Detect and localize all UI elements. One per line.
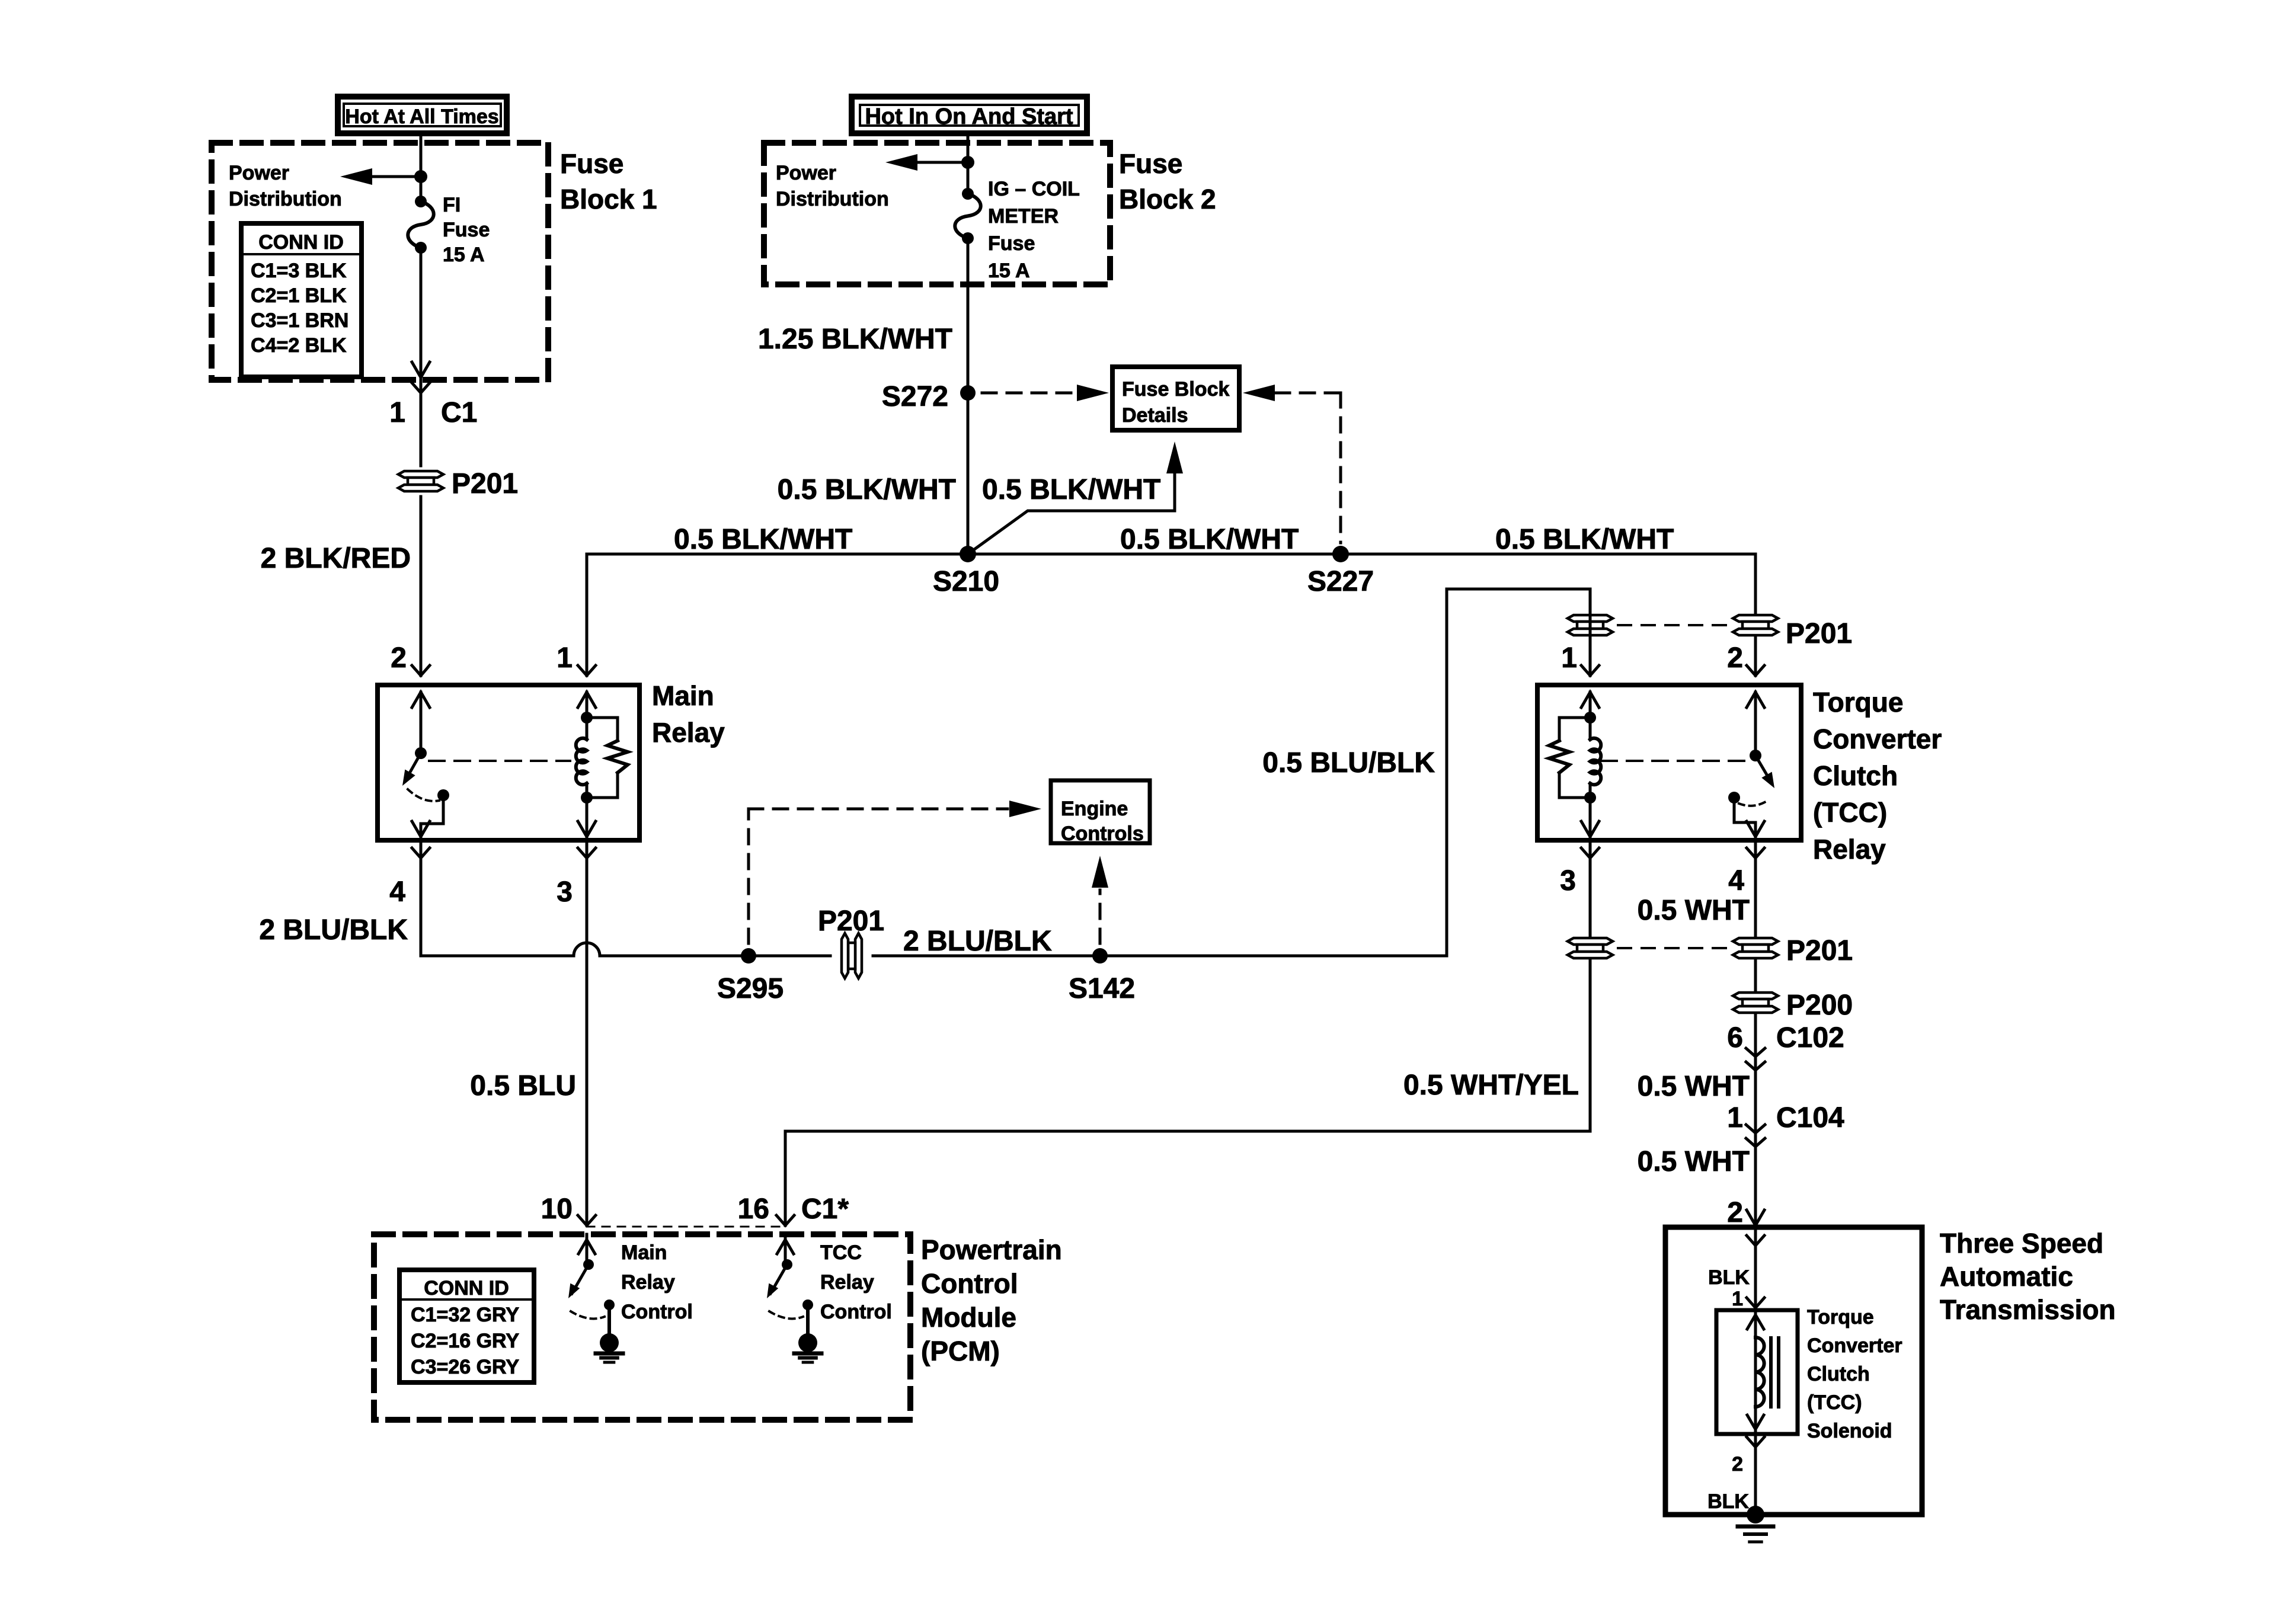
svg-text:10: 10 — [541, 1193, 573, 1225]
svg-text:Fuse: Fuse — [1119, 148, 1182, 179]
dashed link between relay switch and coil — [429, 760, 570, 762]
svg-text:(TCC): (TCC) — [1813, 797, 1887, 828]
svg-text:Control: Control — [621, 1301, 693, 1323]
wire: S142 right and up to TCC relay — [1100, 589, 1590, 956]
svg-text:S272: S272 — [882, 381, 948, 412]
svg-text:S227: S227 — [1307, 566, 1374, 597]
wire: main relay pin 4 down and right — [421, 840, 574, 956]
svg-text:0.5 BLU/BLK: 0.5 BLU/BLK — [1262, 747, 1435, 779]
connector chevron at TCC pin 4 — [1747, 848, 1764, 858]
svg-text:3: 3 — [1560, 865, 1576, 897]
wire: arrow to Power Distribution — [347, 175, 421, 178]
svg-text:1: 1 — [557, 642, 573, 674]
svg-text:P200: P200 — [1786, 990, 1853, 1021]
splice S295 — [741, 948, 756, 964]
svg-text:0.5 WHT: 0.5 WHT — [1638, 895, 1750, 926]
svg-text:METER: METER — [988, 205, 1059, 228]
connector chevron at main relay pin 2 — [412, 665, 430, 676]
wire: TCC pin 4 down to transmission — [1754, 840, 1757, 1225]
wire: main 0.5 BLK/WHT bus — [587, 553, 1755, 556]
svg-text:Module: Module — [921, 1302, 1016, 1333]
svg-text:2: 2 — [1727, 1197, 1743, 1228]
svg-text:CONN ID: CONN ID — [424, 1277, 509, 1299]
dashed wire from S142 to Engine Controls — [1099, 890, 1102, 943]
svg-text:IG – COIL: IG – COIL — [988, 178, 1080, 200]
svg-text:1: 1 — [1727, 1102, 1743, 1134]
svg-text:S142: S142 — [1069, 973, 1135, 1004]
wire: fuse block 2 output down to S272 — [967, 238, 970, 393]
svg-text:6: 6 — [1727, 1022, 1743, 1054]
svg-text:0.5 BLK/WHT: 0.5 BLK/WHT — [1495, 524, 1674, 555]
thin dashed connector line between pins 10 and 16 — [587, 1226, 785, 1228]
svg-text:0.5 BLU: 0.5 BLU — [470, 1070, 576, 1102]
svg-text:S210: S210 — [933, 566, 999, 597]
ground at main relay control — [607, 1305, 611, 1334]
connector chevron above solenoid — [1747, 1298, 1764, 1308]
wire: bus drop to main relay pin 1 — [586, 554, 589, 676]
connector C102 double chevron — [1746, 1048, 1765, 1057]
svg-text:TCC: TCC — [820, 1241, 862, 1264]
TCC relay switch (pins 2-4) — [1747, 692, 1764, 708]
svg-text:2 BLK/RED: 2 BLK/RED — [261, 543, 411, 574]
svg-text:Torque: Torque — [1813, 687, 1903, 718]
svg-text:C3=1 BRN: C3=1 BRN — [251, 309, 348, 332]
svg-text:Block 2: Block 2 — [1119, 184, 1216, 215]
ground at TCC relay control — [806, 1305, 810, 1334]
connector chevron at main relay pin 4 — [412, 848, 430, 858]
arrow: wire exits fuse block 1 — [412, 362, 430, 377]
svg-text:Relay: Relay — [652, 717, 725, 748]
svg-text:0.5 WHT: 0.5 WHT — [1638, 1146, 1750, 1177]
splice S227 — [1332, 546, 1349, 562]
svg-text:2 BLU/BLK: 2 BLU/BLK — [259, 914, 408, 946]
svg-text:P201: P201 — [1786, 618, 1852, 649]
connector chevron inside transmission (top) — [1754, 1227, 1757, 1311]
svg-text:0.5 WHT/YEL: 0.5 WHT/YEL — [1403, 1070, 1579, 1101]
svg-text:Fuse: Fuse — [560, 148, 623, 179]
svg-text:1: 1 — [1561, 642, 1577, 674]
wire: bus corner down to TCC relay pin 2 — [1754, 554, 1757, 676]
TCC relay coil with resistor (pins 1-3) — [1581, 692, 1599, 708]
svg-text:P201: P201 — [452, 468, 518, 500]
svg-text:C102: C102 — [1776, 1022, 1844, 1054]
PCM TCC relay control switch — [784, 1234, 787, 1240]
connector chevron at PCM pin 16 — [776, 1215, 794, 1225]
svg-text:Automatic: Automatic — [1940, 1261, 2073, 1292]
svg-text:Fuse: Fuse — [443, 219, 490, 241]
svg-text:Fuse Block: Fuse Block — [1122, 378, 1229, 401]
svg-text:0.5 BLK/WHT: 0.5 BLK/WHT — [674, 524, 852, 555]
svg-text:15 A: 15 A — [443, 244, 485, 266]
wire: TCC pin 3 left to PCM pin 16 riser — [785, 1130, 1590, 1133]
connector P201 (middle, in-line) — [842, 933, 862, 978]
svg-text:C4=2 BLK: C4=2 BLK — [251, 334, 347, 357]
svg-text:Converter: Converter — [1807, 1334, 1902, 1357]
svg-text:2: 2 — [1732, 1453, 1743, 1475]
svg-text:Relay: Relay — [1813, 834, 1886, 865]
wire: S295 to P201 — [749, 955, 830, 958]
fuse IG-COIL METER 15A — [962, 188, 974, 200]
connector C104 double chevron — [1746, 1125, 1765, 1133]
svg-text:4: 4 — [389, 876, 405, 908]
svg-text:C104: C104 — [1776, 1102, 1844, 1134]
svg-text:Controls: Controls — [1061, 822, 1144, 845]
svg-text:Control: Control — [921, 1268, 1018, 1299]
wire: P201 to S142 — [873, 955, 1100, 958]
svg-text:Hot In On And Start: Hot In On And Start — [865, 104, 1073, 129]
svg-text:S295: S295 — [717, 973, 784, 1004]
wire: S272 down to S210 — [967, 393, 970, 554]
svg-text:1: 1 — [1732, 1288, 1743, 1310]
svg-text:Hot At All Times: Hot At All Times — [345, 105, 498, 128]
svg-text:1: 1 — [389, 397, 405, 428]
svg-text:Clutch: Clutch — [1807, 1363, 1870, 1385]
wire: down to TCC pin 1 — [1589, 589, 1592, 676]
svg-text:FI: FI — [443, 194, 461, 216]
wire: feed into fuse block 2 — [967, 133, 970, 194]
wire: TCC pin 3 down — [1589, 840, 1592, 1131]
svg-text:Block 1: Block 1 — [560, 184, 657, 215]
svg-text:Distribution: Distribution — [776, 188, 889, 210]
svg-text:Distribution: Distribution — [229, 188, 342, 210]
Engine Controls box — [1051, 780, 1150, 843]
dashed link between TCC coil and switch — [1601, 760, 1746, 762]
svg-text:BLK: BLK — [1708, 1266, 1750, 1289]
header box: Hot At All Times — [338, 97, 507, 133]
svg-text:Relay: Relay — [621, 1271, 675, 1294]
splice S210 — [960, 546, 976, 562]
connector P201 (left branch) — [398, 471, 443, 491]
svg-text:Torque: Torque — [1807, 1306, 1874, 1329]
svg-text:C1*: C1* — [801, 1193, 849, 1225]
svg-text:C3=26 GRY: C3=26 GRY — [411, 1356, 519, 1378]
wire hop over pin 3 wire — [574, 943, 600, 956]
svg-text:3: 3 — [557, 876, 573, 908]
header box: Hot In On And Start — [852, 97, 1087, 133]
svg-text:Engine: Engine — [1061, 798, 1128, 820]
TCC solenoid coil — [1754, 1310, 1757, 1434]
splice S142 — [1092, 948, 1108, 964]
Fuse Block Details box — [1112, 367, 1239, 430]
connector C1 pin 1 chevron — [412, 383, 430, 393]
CONN ID table (fuse block 1) — [241, 223, 362, 377]
Fuse Block 2 dashed box — [764, 143, 1110, 284]
connector chevron at TCC pin 1 — [1581, 665, 1599, 676]
svg-text:Fuse: Fuse — [988, 232, 1035, 255]
svg-text:C1=3 BLK: C1=3 BLK — [251, 260, 347, 282]
svg-text:Power: Power — [229, 162, 289, 184]
svg-text:15 A: 15 A — [988, 260, 1030, 282]
connector chevron at TCC pin 2 — [1747, 665, 1764, 676]
wire: C1 to P201 — [420, 393, 423, 466]
dashed arrow S272 to Fuse Block Details — [982, 392, 1074, 395]
wire: riser down to PCM pin 16 — [784, 1131, 787, 1225]
fuse FI 15A — [415, 196, 427, 207]
Fuse Block 1 dashed box — [212, 143, 548, 380]
connector chevron at TCC pin 3 — [1581, 848, 1599, 858]
wire: fuse output down to box edge — [420, 248, 423, 393]
svg-text:Three Speed: Three Speed — [1940, 1228, 2103, 1259]
svg-text:Relay: Relay — [820, 1271, 874, 1294]
svg-text:P201: P201 — [1786, 935, 1853, 966]
svg-text:(TCC): (TCC) — [1807, 1391, 1862, 1414]
svg-text:Power: Power — [776, 162, 836, 184]
dashed arrow from S227 to Fuse Block Details — [1243, 385, 1275, 401]
node: junction to power distribution (block 2) — [961, 156, 974, 169]
wire: battery feed into fuse block 1 — [420, 133, 423, 201]
svg-text:0.5 BLK/WHT: 0.5 BLK/WHT — [778, 474, 956, 505]
arrow into transmission box — [1747, 1210, 1764, 1225]
svg-text:Solenoid: Solenoid — [1807, 1420, 1892, 1442]
svg-text:Main: Main — [621, 1241, 667, 1264]
node: junction to power distribution — [414, 170, 427, 183]
dashed wire from S295 to Engine Controls — [747, 809, 750, 943]
svg-text:CONN ID: CONN ID — [258, 231, 344, 254]
svg-text:C1=32 GRY: C1=32 GRY — [411, 1304, 519, 1326]
svg-text:BLK: BLK — [1707, 1490, 1749, 1513]
connector P201 pair below TCC relay — [1568, 938, 1613, 958]
svg-text:Details: Details — [1122, 404, 1188, 427]
PCM dashed box — [374, 1234, 910, 1420]
connector chevron at PCM pin 10 — [578, 1215, 596, 1225]
main relay coil with resistor (pins 1-3) — [578, 692, 596, 708]
connector chevron at main relay pin 3 — [578, 848, 596, 858]
wire: S210 tap up to Fuse Block Details — [968, 474, 1175, 554]
svg-text:1.25 BLK/WHT: 1.25 BLK/WHT — [758, 324, 952, 355]
TCC relay box — [1537, 685, 1801, 840]
wire: arrow to Power Distribution (block 2) — [893, 161, 968, 164]
connector chevron at main relay pin 1 — [578, 665, 596, 676]
connector P201 pair above TCC relay — [1568, 615, 1613, 635]
svg-text:Control: Control — [820, 1301, 892, 1323]
svg-text:0.5 BLK/WHT: 0.5 BLK/WHT — [1120, 524, 1299, 555]
svg-text:2: 2 — [391, 642, 407, 674]
connector P200 — [1733, 993, 1778, 1013]
svg-text:Main: Main — [652, 680, 714, 711]
splice S272 — [960, 385, 976, 401]
svg-text:Converter: Converter — [1813, 724, 1942, 754]
Three Speed Automatic Transmission box — [1665, 1227, 1922, 1515]
svg-text:Transmission: Transmission — [1940, 1294, 2116, 1325]
svg-text:16: 16 — [738, 1193, 769, 1225]
main relay switch (pins 2-4) — [412, 692, 430, 708]
wire: P201 down to main relay pin 2 — [420, 497, 423, 676]
wire below solenoid — [1754, 1434, 1757, 1515]
svg-text:Powertrain: Powertrain — [921, 1234, 1062, 1265]
svg-text:4: 4 — [1728, 865, 1744, 897]
CONN ID table (PCM) — [399, 1270, 534, 1382]
svg-text:2 BLU/BLK: 2 BLU/BLK — [903, 926, 1052, 957]
wire: main relay pin 3 down to PCM pin 10 — [586, 840, 589, 1225]
ground at transmission case — [1747, 1506, 1764, 1523]
main relay box — [378, 685, 639, 840]
svg-text:P201: P201 — [818, 905, 884, 937]
svg-text:C2=16 GRY: C2=16 GRY — [411, 1330, 519, 1352]
svg-text:Clutch: Clutch — [1813, 760, 1898, 791]
svg-text:0.5 BLK/WHT: 0.5 BLK/WHT — [982, 474, 1160, 505]
connector chevron below solenoid — [1747, 1437, 1764, 1447]
svg-text:C2=1 BLK: C2=1 BLK — [251, 284, 347, 307]
svg-text:C1: C1 — [441, 397, 477, 428]
PCM main relay control switch — [586, 1234, 589, 1240]
wire: continues right to S295 — [600, 955, 749, 958]
TCC solenoid box — [1716, 1310, 1798, 1434]
svg-text:2: 2 — [1727, 642, 1743, 674]
svg-text:0.5 WHT: 0.5 WHT — [1638, 1071, 1750, 1102]
svg-text:(PCM): (PCM) — [921, 1336, 1000, 1366]
